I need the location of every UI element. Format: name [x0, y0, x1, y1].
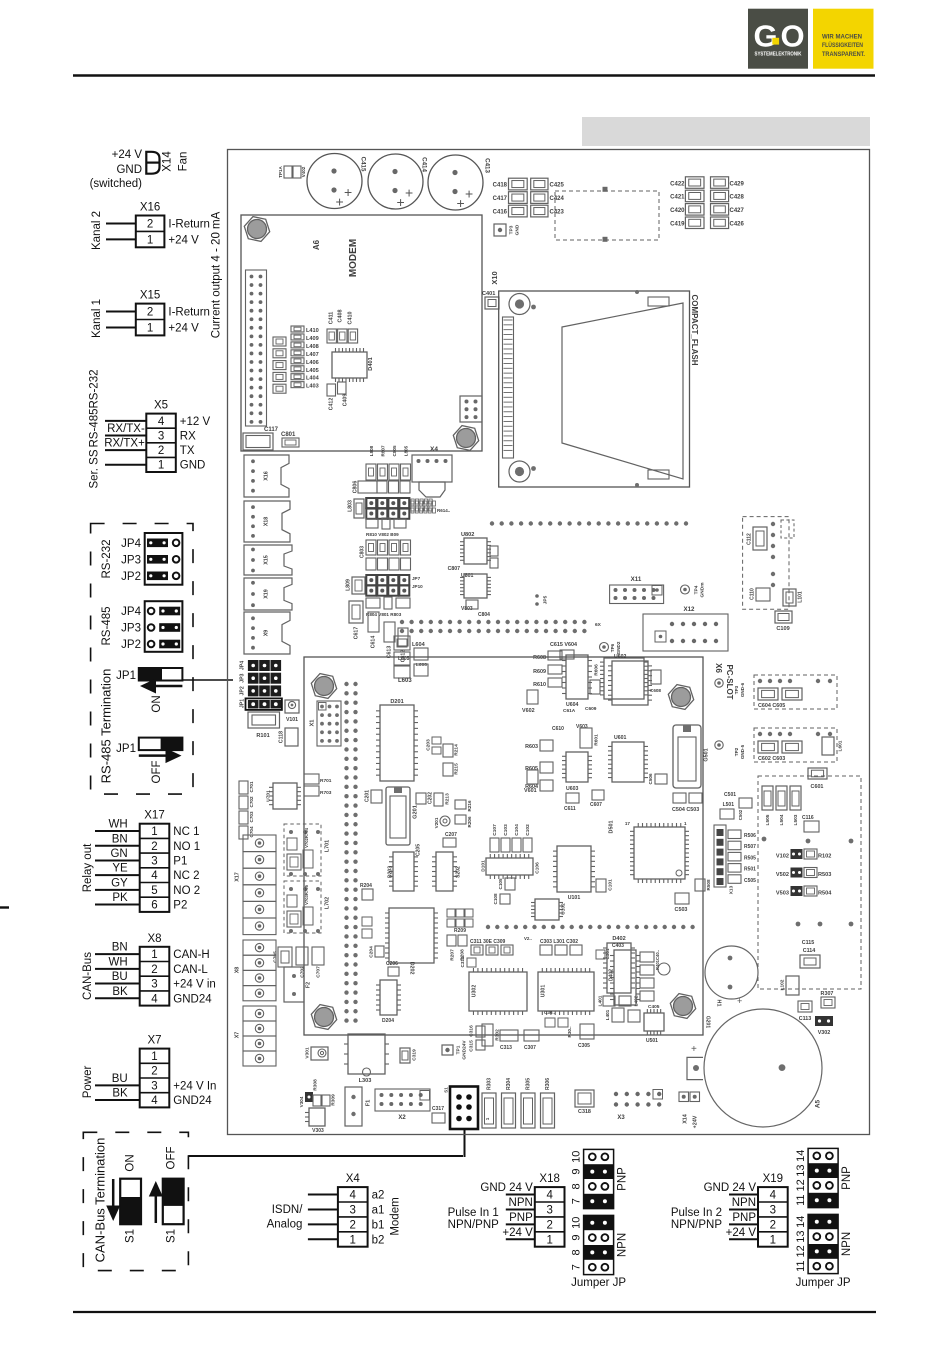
svg-text:12: 12: [795, 1245, 807, 1257]
svg-text:C316: C316: [468, 1025, 474, 1037]
svg-text:BU: BU: [112, 1073, 128, 1085]
svg-text:C423: C423: [550, 210, 565, 216]
svg-text:NPN: NPN: [732, 1197, 756, 1209]
svg-text:+24 V: +24 V: [168, 322, 199, 334]
svg-text:A5: A5: [815, 1099, 822, 1108]
svg-text:+24 V in: +24 V in: [173, 979, 216, 991]
svg-text:C110: C110: [749, 588, 755, 600]
svg-text:X12: X12: [683, 606, 695, 613]
svg-text:COMPACT_FLASH: COMPACT_FLASH: [690, 295, 699, 366]
svg-text:GND: GND: [180, 460, 206, 472]
svg-text:BU: BU: [112, 971, 128, 983]
svg-text:C319: C319: [411, 1049, 417, 1061]
svg-text:D203: D203: [387, 866, 393, 878]
svg-text:L403: L403: [306, 384, 319, 390]
svg-text:10: 10: [571, 1151, 583, 1163]
svg-text:V302: V302: [818, 1030, 831, 1036]
svg-text:1: 1: [546, 1234, 552, 1246]
svg-text:C505: C505: [744, 878, 756, 884]
svg-text:PC-SLOT: PC-SLOT: [725, 664, 734, 699]
svg-text:TP4: TP4: [693, 585, 699, 594]
svg-text:4: 4: [151, 993, 158, 1005]
svg-text:V601: V601: [524, 788, 537, 794]
svg-text:JP4: JP4: [121, 606, 141, 618]
svg-text:1: 1: [350, 1234, 356, 1246]
svg-text:V602: V602: [522, 708, 535, 714]
svg-text:R216: R216: [467, 800, 472, 811]
svg-text:C104: C104: [514, 824, 520, 836]
svg-text:G201: G201: [705, 1016, 711, 1028]
svg-text:C112: C112: [746, 533, 752, 545]
svg-text:7: 7: [571, 1264, 583, 1270]
svg-text:+: +: [465, 186, 473, 202]
svg-text:Kanal 1: Kanal 1: [91, 299, 103, 338]
svg-text:X7: X7: [147, 1035, 161, 1047]
svg-text:9: 9: [571, 1235, 583, 1241]
svg-text:CAN-Bus Termination: CAN-Bus Termination: [92, 1138, 107, 1263]
svg-text:D201: D201: [390, 699, 403, 705]
svg-text:13: 13: [795, 1164, 807, 1176]
svg-text:L808: L808: [369, 445, 374, 456]
svg-text:+: +: [691, 1044, 697, 1055]
svg-text:ON: ON: [125, 1154, 137, 1171]
svg-text:TP3: TP3: [508, 225, 514, 234]
svg-text:C313: C313: [500, 1045, 512, 1051]
svg-text:L407: L407: [306, 352, 319, 358]
svg-text:1: 1: [147, 234, 153, 246]
svg-text:C414: C414: [420, 157, 427, 172]
svg-text:X10: X10: [490, 271, 499, 284]
svg-text:PNP: PNP: [617, 1167, 629, 1191]
svg-text:10: 10: [571, 1217, 583, 1229]
svg-text:L702: L702: [324, 897, 330, 909]
svg-text:C317: C317: [432, 1106, 444, 1112]
svg-text:V101: V101: [286, 717, 298, 723]
svg-text:X8: X8: [234, 967, 240, 974]
svg-text:WH: WH: [109, 819, 128, 831]
svg-text:C118: C118: [278, 731, 284, 743]
svg-text:JP3: JP3: [121, 554, 141, 566]
svg-text:OFF: OFF: [166, 1147, 178, 1170]
svg-text:L803: L803: [347, 500, 353, 512]
svg-text:2: 2: [147, 218, 153, 230]
svg-text:1: 1: [770, 1234, 776, 1246]
svg-text:C610: C610: [552, 726, 564, 732]
svg-text:CAN-H: CAN-H: [173, 949, 209, 961]
svg-text:V703R705: V703R705: [304, 884, 309, 904]
svg-text:JP3: JP3: [121, 623, 141, 635]
svg-text:L701: L701: [324, 840, 330, 852]
svg-text:C701: C701: [249, 781, 254, 792]
svg-text:X7: X7: [234, 1032, 240, 1039]
svg-text:RX: RX: [180, 431, 196, 443]
svg-text:C428: C428: [730, 195, 745, 201]
svg-text:L603: L603: [398, 678, 412, 684]
svg-text:JP7: JP7: [412, 576, 421, 581]
svg-text:8: 8: [571, 1249, 583, 1255]
svg-text:1: 1: [158, 460, 164, 472]
svg-text:R102: R102: [818, 854, 831, 860]
svg-text:11: 11: [795, 1260, 807, 1271]
svg-text:C410: C410: [347, 312, 353, 325]
svg-text:RS-232: RS-232: [89, 370, 101, 409]
svg-text:(switched): (switched): [90, 178, 143, 190]
svg-text:V2..: V2..: [524, 936, 532, 941]
svg-text:4: 4: [350, 1190, 357, 1202]
svg-text:GY: GY: [111, 877, 128, 889]
svg-text:NC 2: NC 2: [173, 870, 199, 882]
svg-text:X4: X4: [430, 446, 438, 453]
svg-text:ISDN/: ISDN/: [272, 1204, 303, 1216]
svg-text:+24 V: +24 V: [168, 234, 199, 246]
svg-text:C116: C116: [802, 815, 814, 821]
svg-text:L809: L809: [345, 579, 351, 591]
svg-text:C315: C315: [468, 1040, 474, 1052]
svg-text:14: 14: [795, 1150, 807, 1162]
svg-text:+: +: [336, 194, 344, 210]
svg-text:C202: C202: [427, 792, 433, 804]
svg-text:X19: X19: [263, 589, 269, 599]
svg-text:C401: C401: [482, 291, 495, 297]
svg-text:C205: C205: [415, 844, 421, 856]
svg-text:JP2: JP2: [239, 686, 245, 695]
svg-text:L101: L101: [797, 591, 803, 603]
svg-text:2: 2: [147, 307, 153, 319]
svg-text:NPN: NPN: [509, 1197, 533, 1209]
svg-text:C806: C806: [352, 481, 358, 494]
svg-text:R703: R703: [320, 790, 332, 796]
svg-text:GND24: GND24: [173, 1095, 212, 1107]
svg-text:3: 3: [151, 855, 157, 867]
svg-text:R213: R213: [444, 793, 450, 805]
svg-text:L601: L601: [837, 740, 843, 751]
svg-text:S1: S1: [166, 1229, 178, 1243]
svg-text:X15: X15: [263, 555, 269, 565]
svg-text:C425: C425: [550, 183, 565, 189]
svg-text:C109: C109: [776, 626, 789, 632]
svg-text:G: G: [754, 19, 778, 54]
svg-text:R306: R306: [545, 1078, 551, 1090]
svg-text:4: 4: [151, 870, 158, 882]
svg-text:C403: C403: [612, 943, 624, 949]
svg-text:L604: L604: [412, 642, 426, 648]
svg-text:X8: X8: [147, 933, 161, 945]
svg-text:C312: C312: [460, 956, 465, 967]
svg-text:C707: C707: [315, 966, 321, 978]
svg-text:V303: V303: [312, 1128, 324, 1134]
svg-text:C411: C411: [328, 312, 334, 325]
svg-text:NO 2: NO 2: [173, 885, 200, 897]
svg-text:C704: C704: [249, 826, 254, 837]
svg-text:C421: C421: [670, 195, 685, 201]
svg-text:JP2: JP2: [121, 571, 141, 583]
svg-text:C422: C422: [670, 181, 685, 187]
svg-text:2: 2: [151, 964, 157, 976]
svg-text:U501: U501: [646, 1038, 658, 1044]
svg-text:V503: V503: [776, 891, 789, 897]
svg-text:C108: C108: [493, 893, 498, 904]
svg-text:GND24: GND24: [173, 993, 212, 1005]
svg-text:RX/TX-: RX/TX-: [107, 423, 145, 435]
svg-text:PNP: PNP: [841, 1166, 853, 1190]
svg-text:R507: R507: [744, 844, 756, 850]
svg-text:GNDm: GNDm: [699, 583, 705, 598]
svg-text:OFF: OFF: [151, 761, 163, 784]
svg-text:b1: b1: [372, 1219, 385, 1231]
svg-text:RS-485 Termination: RS-485 Termination: [98, 669, 113, 784]
svg-text:+12 V: +12 V: [180, 416, 211, 428]
svg-text:a2: a2: [372, 1190, 385, 1202]
svg-text:U601: U601: [614, 735, 627, 741]
svg-text:D402: D402: [612, 936, 625, 942]
svg-text:C426: C426: [730, 222, 745, 228]
svg-text:Jumper JP: Jumper JP: [571, 1277, 626, 1289]
svg-text:GND24V: GND24V: [461, 1040, 467, 1060]
svg-text:R505: R505: [744, 855, 756, 861]
svg-text:JP4: JP4: [121, 538, 141, 550]
svg-text:7: 7: [571, 1198, 583, 1204]
svg-text:TP6: TP6: [610, 643, 615, 652]
svg-text:a1: a1: [372, 1204, 385, 1216]
svg-text:C113: C113: [799, 1016, 812, 1022]
svg-text:D501: D501: [608, 821, 614, 834]
svg-text:R309: R309: [330, 1094, 336, 1106]
svg-text:R308: R308: [312, 1079, 318, 1091]
svg-text:R209: R209: [454, 928, 466, 934]
svg-text:L401: L401: [605, 1009, 610, 1020]
svg-text:X3: X3: [617, 1115, 625, 1121]
svg-text:R214: R214: [453, 744, 459, 756]
svg-text:3: 3: [151, 1080, 157, 1092]
svg-text:C318: C318: [578, 1109, 591, 1115]
svg-text:F2: F2: [305, 982, 311, 988]
svg-text:S1: S1: [125, 1229, 137, 1243]
svg-text:C408: C408: [337, 310, 343, 323]
svg-text:V702R704: V702R704: [304, 827, 309, 847]
svg-text:C607: C607: [590, 802, 602, 808]
svg-text:6X: 6X: [595, 622, 602, 628]
svg-text:WIR MACHEN: WIR MACHEN: [822, 34, 862, 41]
svg-text:V201: V201: [434, 817, 439, 828]
svg-text:X14: X14: [682, 1114, 688, 1124]
svg-text:BN: BN: [112, 833, 128, 845]
svg-text:U602: U602: [614, 654, 627, 660]
svg-text:C601: C601: [811, 784, 824, 790]
svg-text:U102: U102: [560, 903, 566, 915]
svg-text:U701: U701: [265, 790, 271, 802]
svg-text:G201: G201: [412, 805, 418, 819]
svg-text:GND: GND: [514, 224, 520, 235]
svg-text:V301: V301: [304, 1047, 310, 1059]
svg-text:2: 2: [770, 1219, 776, 1231]
svg-text:V402: V402: [301, 166, 306, 177]
svg-text:D401: D401: [368, 357, 374, 370]
svg-text:NPN/PNP: NPN/PNP: [448, 1219, 499, 1231]
svg-text:2: 2: [151, 841, 157, 853]
svg-text:R30..: R30..: [567, 1027, 572, 1038]
svg-text:NPN/PNP: NPN/PNP: [671, 1219, 722, 1231]
svg-text:Jumper JP: Jumper JP: [796, 1277, 851, 1289]
svg-text:C427: C427: [730, 208, 745, 214]
svg-text:X17: X17: [144, 810, 164, 822]
svg-text:BK: BK: [112, 1088, 128, 1100]
svg-text:V502: V502: [776, 872, 789, 878]
svg-text:3: 3: [350, 1204, 356, 1216]
svg-text:C613: C613: [386, 646, 392, 659]
svg-text:C418: C418: [493, 183, 508, 189]
svg-text:2: 2: [350, 1219, 356, 1231]
svg-text:4: 4: [158, 416, 165, 428]
svg-text:R610: R610: [533, 682, 546, 688]
svg-text:L102: L102: [779, 979, 785, 990]
svg-text:U604: U604: [566, 702, 579, 708]
svg-text:R606: R606: [593, 664, 599, 676]
svg-text:C502: C502: [738, 809, 743, 820]
svg-text:R503: R503: [818, 872, 831, 878]
svg-text:L503: L503: [793, 814, 799, 825]
svg-text:C705: C705: [272, 951, 278, 963]
svg-text:X19: X19: [763, 1173, 783, 1185]
svg-text:C311 30E C309: C311 30E C309: [470, 939, 506, 945]
svg-text:X17: X17: [234, 872, 240, 882]
svg-text:R206: R206: [467, 816, 472, 827]
svg-text:D202: D202: [409, 962, 415, 975]
svg-text:+: +: [737, 996, 742, 1006]
svg-text:Fan: Fan: [178, 152, 190, 172]
svg-text:X2: X2: [398, 1115, 406, 1121]
svg-text:C417: C417: [493, 196, 508, 202]
svg-text:C102: C102: [525, 824, 531, 836]
svg-text:b2: b2: [372, 1234, 385, 1246]
svg-text:L406: L406: [306, 360, 319, 366]
svg-text:JP3: JP3: [239, 673, 245, 682]
svg-text:U603: U603: [566, 786, 579, 792]
svg-text:R302: R302: [494, 1029, 500, 1041]
svg-text:+24 V In: +24 V In: [173, 1080, 216, 1092]
svg-text:+: +: [397, 194, 405, 210]
svg-text:S1: S1: [444, 1087, 449, 1093]
svg-text:C409: C409: [342, 394, 348, 407]
svg-text:RS-485: RS-485: [101, 607, 113, 646]
svg-text:TP1A: TP1A: [278, 166, 283, 178]
svg-text:+24 V: +24 V: [112, 149, 143, 161]
svg-text:X6: X6: [714, 663, 723, 673]
svg-text:R810 V802 B09: R810 V802 B09: [366, 532, 399, 537]
svg-text:2: 2: [151, 1066, 157, 1078]
svg-text:U301: U301: [540, 985, 546, 998]
svg-text:C415: C415: [359, 157, 366, 172]
svg-text:PNP: PNP: [509, 1212, 533, 1224]
svg-text:TRANSPARENT.: TRANSPARENT.: [822, 51, 865, 58]
svg-text:RX/TX+: RX/TX+: [104, 438, 145, 450]
svg-text:NPN: NPN: [617, 1233, 629, 1257]
svg-text:X16: X16: [140, 202, 160, 214]
svg-text:X5: X5: [154, 400, 168, 412]
svg-text:D101: D101: [480, 860, 486, 872]
svg-text:X18: X18: [263, 517, 269, 527]
svg-text:C419: C419: [670, 222, 685, 228]
svg-text:NPN: NPN: [841, 1232, 853, 1256]
svg-text:S202: S202: [455, 866, 461, 878]
svg-text:6: 6: [151, 900, 157, 912]
svg-text:Kanal 2: Kanal 2: [91, 211, 103, 250]
svg-text:YE: YE: [112, 863, 128, 875]
svg-text:PNP: PNP: [732, 1212, 756, 1224]
svg-text:R804 V801 R803: R804 V801 R803: [366, 612, 402, 617]
svg-text:JP5: JP5: [542, 595, 548, 604]
svg-text:4: 4: [151, 1095, 158, 1107]
svg-text:R504: R504: [818, 891, 832, 897]
svg-text:P2: P2: [173, 900, 187, 912]
svg-text:8: 8: [571, 1183, 583, 1189]
svg-text:L501: L501: [723, 802, 735, 808]
svg-text:+24 V: +24 V: [502, 1227, 533, 1239]
svg-text:CAN-L: CAN-L: [173, 964, 208, 976]
svg-text:14: 14: [795, 1216, 807, 1228]
svg-text:1: 1: [151, 1051, 157, 1063]
svg-text:FLÜSSIGKEITEN: FLÜSSIGKEITEN: [822, 40, 863, 49]
svg-text:L504: L504: [779, 814, 785, 825]
svg-text:3: 3: [151, 979, 157, 991]
svg-text:Analog: Analog: [267, 1219, 303, 1231]
svg-text:CAN-Bus: CAN-Bus: [82, 952, 94, 1000]
svg-text:C206: C206: [386, 961, 398, 967]
svg-text:C702: C702: [249, 796, 254, 807]
svg-text:V304: V304: [299, 1096, 304, 1107]
svg-text:C608: C608: [650, 688, 661, 693]
svg-text:L410: L410: [306, 328, 319, 334]
svg-text:R204: R204: [360, 883, 372, 889]
svg-text:C106: C106: [534, 862, 540, 874]
svg-text:GND: GND: [116, 164, 142, 176]
svg-text:C101: C101: [607, 879, 613, 891]
svg-text:C103: C103: [503, 824, 509, 836]
svg-text:NO 1: NO 1: [173, 841, 200, 853]
svg-text:L409: L409: [306, 336, 319, 342]
svg-text:SYSTEMELEKTRONIK: SYSTEMELEKTRONIK: [755, 51, 803, 57]
svg-text:MODEM: MODEM: [348, 239, 359, 277]
svg-text:C429: C429: [730, 181, 745, 187]
svg-text:TP1: TP1: [455, 1045, 461, 1054]
svg-text:BN: BN: [112, 942, 128, 954]
svg-text:C420: C420: [670, 208, 685, 214]
svg-text:R305: R305: [525, 1078, 531, 1090]
svg-text:1: 1: [684, 821, 687, 826]
svg-text:R207: R207: [449, 949, 455, 961]
svg-text:R215: R215: [453, 763, 459, 775]
svg-text:G501: G501: [703, 748, 709, 761]
svg-text:TP3: TP3: [734, 685, 739, 694]
svg-text:H1: H1: [716, 1000, 722, 1007]
svg-text:V603: V603: [576, 724, 588, 730]
svg-text:L401: L401: [597, 995, 603, 1006]
svg-text:C504 C503: C504 C503: [672, 807, 699, 813]
svg-text:TX: TX: [180, 445, 195, 457]
svg-text:TP2: TP2: [734, 747, 739, 756]
svg-text:X16: X16: [263, 471, 269, 481]
svg-text:X14: X14: [162, 151, 174, 172]
svg-text:12: 12: [795, 1179, 807, 1191]
svg-text:X11: X11: [631, 576, 642, 583]
svg-text:GND-5: GND-5: [740, 744, 745, 759]
svg-text:4: 4: [546, 1190, 553, 1202]
svg-text:JP4: JP4: [239, 661, 245, 670]
svg-text:C416: C416: [493, 210, 508, 216]
svg-text:GND-6: GND-6: [740, 682, 745, 697]
svg-text:U802: U802: [461, 532, 474, 538]
svg-text:R101: R101: [256, 733, 269, 739]
svg-text:L303: L303: [359, 1078, 372, 1084]
